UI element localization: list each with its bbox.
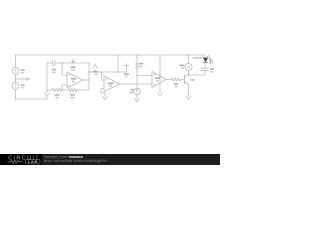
capacitor C2 xyxy=(202,68,209,70)
node junction rail x188 xyxy=(188,54,190,56)
label OA2 xyxy=(155,77,160,79)
wire chain right end xyxy=(77,89,89,91)
label Q1 xyxy=(191,79,195,81)
labels (smudge approximations of tiny component text) xyxy=(21,57,214,98)
wire rail drop x160 xyxy=(159,55,161,75)
node junction x188 y75 xyxy=(188,74,190,76)
ground G5 xyxy=(186,96,191,99)
wire minus input drop xyxy=(62,63,67,75)
net flag left xyxy=(27,78,30,81)
label VF2 xyxy=(93,71,98,73)
ground G3 xyxy=(135,99,140,102)
op-amp OA1 xyxy=(67,72,83,88)
node junction x101.5 y72 xyxy=(101,71,103,73)
svg-text:http://circuitlab.com/c4cMb8gh: http://circuitlab.com/c4cMb8ghfSv xyxy=(44,159,108,163)
wire OA3 minus drop xyxy=(102,72,105,80)
node junction x47 y90 xyxy=(46,89,48,91)
wire left drop to V1 xyxy=(15,55,17,68)
logo resistor zigzag xyxy=(8,160,23,163)
resistor R2 xyxy=(68,88,77,91)
label OA3 xyxy=(108,83,113,85)
wire rail right corner down xyxy=(204,55,206,58)
node junction x89 y80 xyxy=(88,79,90,81)
capacitor C1 xyxy=(53,61,55,66)
resistor R1 xyxy=(52,88,62,91)
op-amp OA2 xyxy=(152,72,166,88)
ground G4 xyxy=(158,93,163,96)
label VF3 xyxy=(124,73,129,75)
label R2 xyxy=(70,94,75,96)
label C2 xyxy=(210,68,214,70)
label R4 xyxy=(139,63,143,65)
wire mid vertical x47 xyxy=(46,63,48,93)
node junction left xyxy=(15,78,17,80)
node junction x62 y63 xyxy=(61,62,63,64)
net flag up arrow xyxy=(93,64,97,68)
wire rail drop x118 xyxy=(117,55,119,72)
ground G1 xyxy=(45,93,50,96)
wire collector node horizontal xyxy=(189,71,206,75)
wire SP1 to rail xyxy=(188,55,190,63)
node junction x137 y75.5 xyxy=(136,75,138,77)
watermark bar xyxy=(0,154,220,165)
wire C1 input line xyxy=(47,62,52,64)
wire stub to flag xyxy=(16,78,27,80)
wire OA1 output xyxy=(83,79,89,81)
wire OA3 output xyxy=(120,83,153,85)
op-amp OA3 xyxy=(104,76,120,92)
voltage source V1 xyxy=(12,68,19,75)
wire R5 to Q1 base xyxy=(181,79,185,81)
label SP1 xyxy=(179,65,184,67)
wire R4 top xyxy=(136,55,138,62)
wire collector up xyxy=(188,71,190,74)
LED D2 dark xyxy=(203,55,210,62)
wire V1 to junction xyxy=(15,75,17,83)
label OA1 xyxy=(71,78,76,80)
label LED1 xyxy=(210,58,212,64)
wire plus input drop xyxy=(62,85,67,90)
voltage source V2 xyxy=(12,83,19,90)
label V1 xyxy=(21,69,25,71)
wire top rail xyxy=(16,54,206,56)
svg-text:LAB: LAB xyxy=(28,159,38,164)
wire R4 bottom to I1 xyxy=(136,70,138,89)
net flag T bar xyxy=(124,64,129,72)
transistor Q1 xyxy=(184,76,186,84)
wire I1 to ground xyxy=(136,95,138,99)
wire C1 to minus node xyxy=(55,62,89,64)
wire chain left xyxy=(47,89,52,91)
label C1 xyxy=(52,69,57,71)
speaker SP1 xyxy=(185,63,192,70)
node junction x62 y90 xyxy=(61,89,63,91)
resistor R5 xyxy=(171,78,181,81)
wire feedback right leg xyxy=(88,63,90,90)
wire ground stub x160 xyxy=(159,75,161,93)
label above LED xyxy=(193,57,203,59)
label R5 xyxy=(174,83,178,85)
resistor R4 vertical xyxy=(136,62,138,69)
wire OA2 output xyxy=(166,79,171,81)
label VF1 xyxy=(71,66,76,68)
ground G2 xyxy=(103,97,108,100)
wire OA3 plus loop xyxy=(101,89,105,97)
wire LED to C2 xyxy=(204,64,206,68)
wire emitter down xyxy=(188,85,190,96)
wire between R1 R2 xyxy=(62,89,68,91)
wire mid horizontal y73 xyxy=(89,71,127,73)
node junction x89 y72 xyxy=(88,71,90,73)
wire V2 down and bottom return xyxy=(16,90,48,100)
net flag D1 on feedback wire xyxy=(72,59,74,62)
current source I1 xyxy=(134,88,141,95)
label I1 xyxy=(131,89,134,91)
logo LAB box xyxy=(26,160,41,164)
label V2 xyxy=(21,84,25,86)
wire OA2 minus feed xyxy=(137,75,152,77)
node junction x118 y72 xyxy=(117,71,119,73)
label R1 xyxy=(55,94,60,96)
